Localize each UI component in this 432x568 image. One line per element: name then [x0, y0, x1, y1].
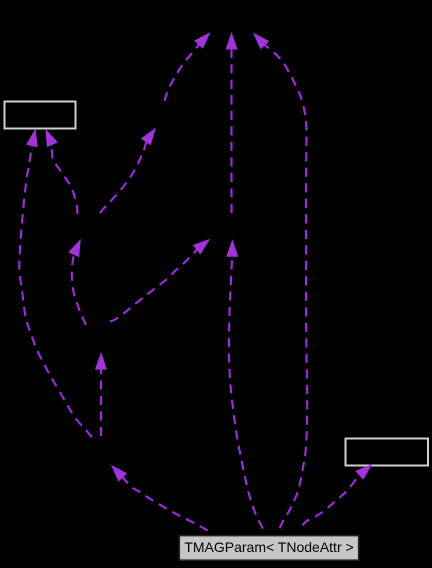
- svg-text:TMAGParam< TNodeAttr >: TMAGParam< TNodeAttr >: [184, 539, 353, 555]
